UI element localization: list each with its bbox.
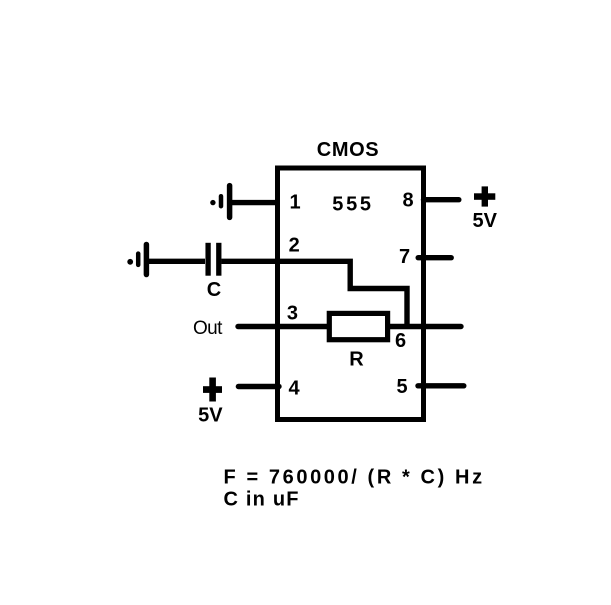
input terminal J2 dot — [127, 259, 133, 265]
pin 8 wire — [424, 197, 459, 202]
plus symbol left vertical bar — [209, 378, 216, 402]
svg-text:1: 1 — [289, 192, 300, 214]
internal wire pin 2 horizontal segment — [277, 261, 407, 326]
svg-text:6: 6 — [395, 330, 406, 352]
pin 4 wire — [238, 384, 279, 389]
svg-text:3: 3 — [287, 303, 298, 325]
input terminal J2 tall bar — [144, 245, 150, 275]
svg-text:CMOS: CMOS — [317, 139, 379, 161]
input terminal J1 small bar — [219, 196, 224, 206]
svg-text:5V: 5V — [198, 404, 223, 426]
resistor R body — [329, 313, 387, 339]
capacitor C left plate — [205, 243, 210, 276]
pin 7 wire — [418, 255, 451, 260]
plus symbol right horizontal bar — [474, 193, 495, 200]
svg-text:5: 5 — [397, 376, 408, 398]
IC U1 555 body — [278, 168, 424, 420]
svg-text:C in uF: C in uF — [224, 489, 300, 511]
input terminal J1 tall bar — [227, 186, 233, 218]
svg-text:C: C — [207, 279, 221, 301]
wire Out to pin 3 and through to pin 6 — [238, 324, 461, 329]
svg-text:4: 4 — [288, 378, 300, 400]
pin 1 wire — [230, 200, 279, 205]
svg-text:Out: Out — [193, 318, 223, 339]
plus symbol right vertical bar — [482, 186, 488, 206]
svg-text:8: 8 — [403, 190, 414, 212]
input terminal J1 dot — [210, 200, 215, 205]
svg-text:R: R — [349, 349, 364, 371]
pin 5 wire — [418, 383, 464, 388]
wire J2 to capacitor C — [146, 259, 205, 264]
svg-text:F = 760000/ (R * C) Hz: F = 760000/ (R * C) Hz — [224, 467, 485, 489]
input terminal J2 small bar — [136, 254, 141, 265]
plus symbol left horizontal bar — [203, 386, 222, 393]
svg-text:555: 555 — [332, 194, 373, 216]
svg-text:7: 7 — [399, 246, 410, 268]
wire capacitor C to pin 2 — [221, 259, 280, 264]
capacitor C right plate — [216, 243, 221, 276]
svg-text:2: 2 — [289, 235, 300, 257]
svg-text:5V: 5V — [472, 210, 497, 232]
